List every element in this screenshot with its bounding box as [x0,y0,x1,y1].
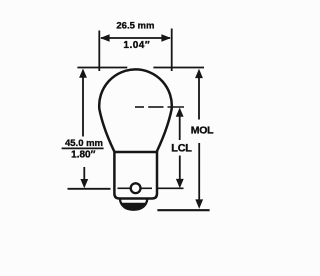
dimension line 26.5mm [100,34,171,41]
label 26.5 mm [116,20,154,31]
LCL dimension upper arrow [176,108,184,141]
left dimension 45.0mm upper arrow [79,69,87,137]
svg-text:LCL: LCL [171,143,192,155]
filament center line (dash-dot) [135,106,184,108]
MOL dimension upper arrow [195,69,203,120]
label 45.0 mm [65,138,103,149]
base shell [114,152,157,199]
right reference line at pin plane [158,187,184,189]
left dimension 45.0mm lower arrow [80,167,88,188]
top reference line right segment [153,67,204,69]
top reference line left segment [77,67,127,69]
pin centre line dashes inside base [118,187,153,189]
bayonet pin circle [131,183,141,193]
label 1.80" [71,150,95,161]
bulb envelope [99,69,172,151]
svg-text:1.04″: 1.04″ [123,40,150,51]
bottom reference line MOL [157,209,209,211]
LCL dimension lower arrow [176,156,184,189]
fraction bar under 45.0 mm [62,147,104,149]
extension line right of 26.5mm dimension [171,29,173,72]
label LCL [171,143,192,155]
label MOL [191,124,214,136]
svg-text:1.80″: 1.80″ [71,150,95,161]
svg-text:26.5 mm: 26.5 mm [116,20,154,31]
MOL dimension lower arrow [195,143,203,209]
base contact bump [120,199,148,210]
label 1.04" [123,40,150,51]
svg-text:45.0 mm: 45.0 mm [65,138,103,149]
left reference line at pin plane [68,188,111,190]
extension line left of 26.5mm dimension [98,31,100,72]
svg-text:MOL: MOL [191,124,214,136]
